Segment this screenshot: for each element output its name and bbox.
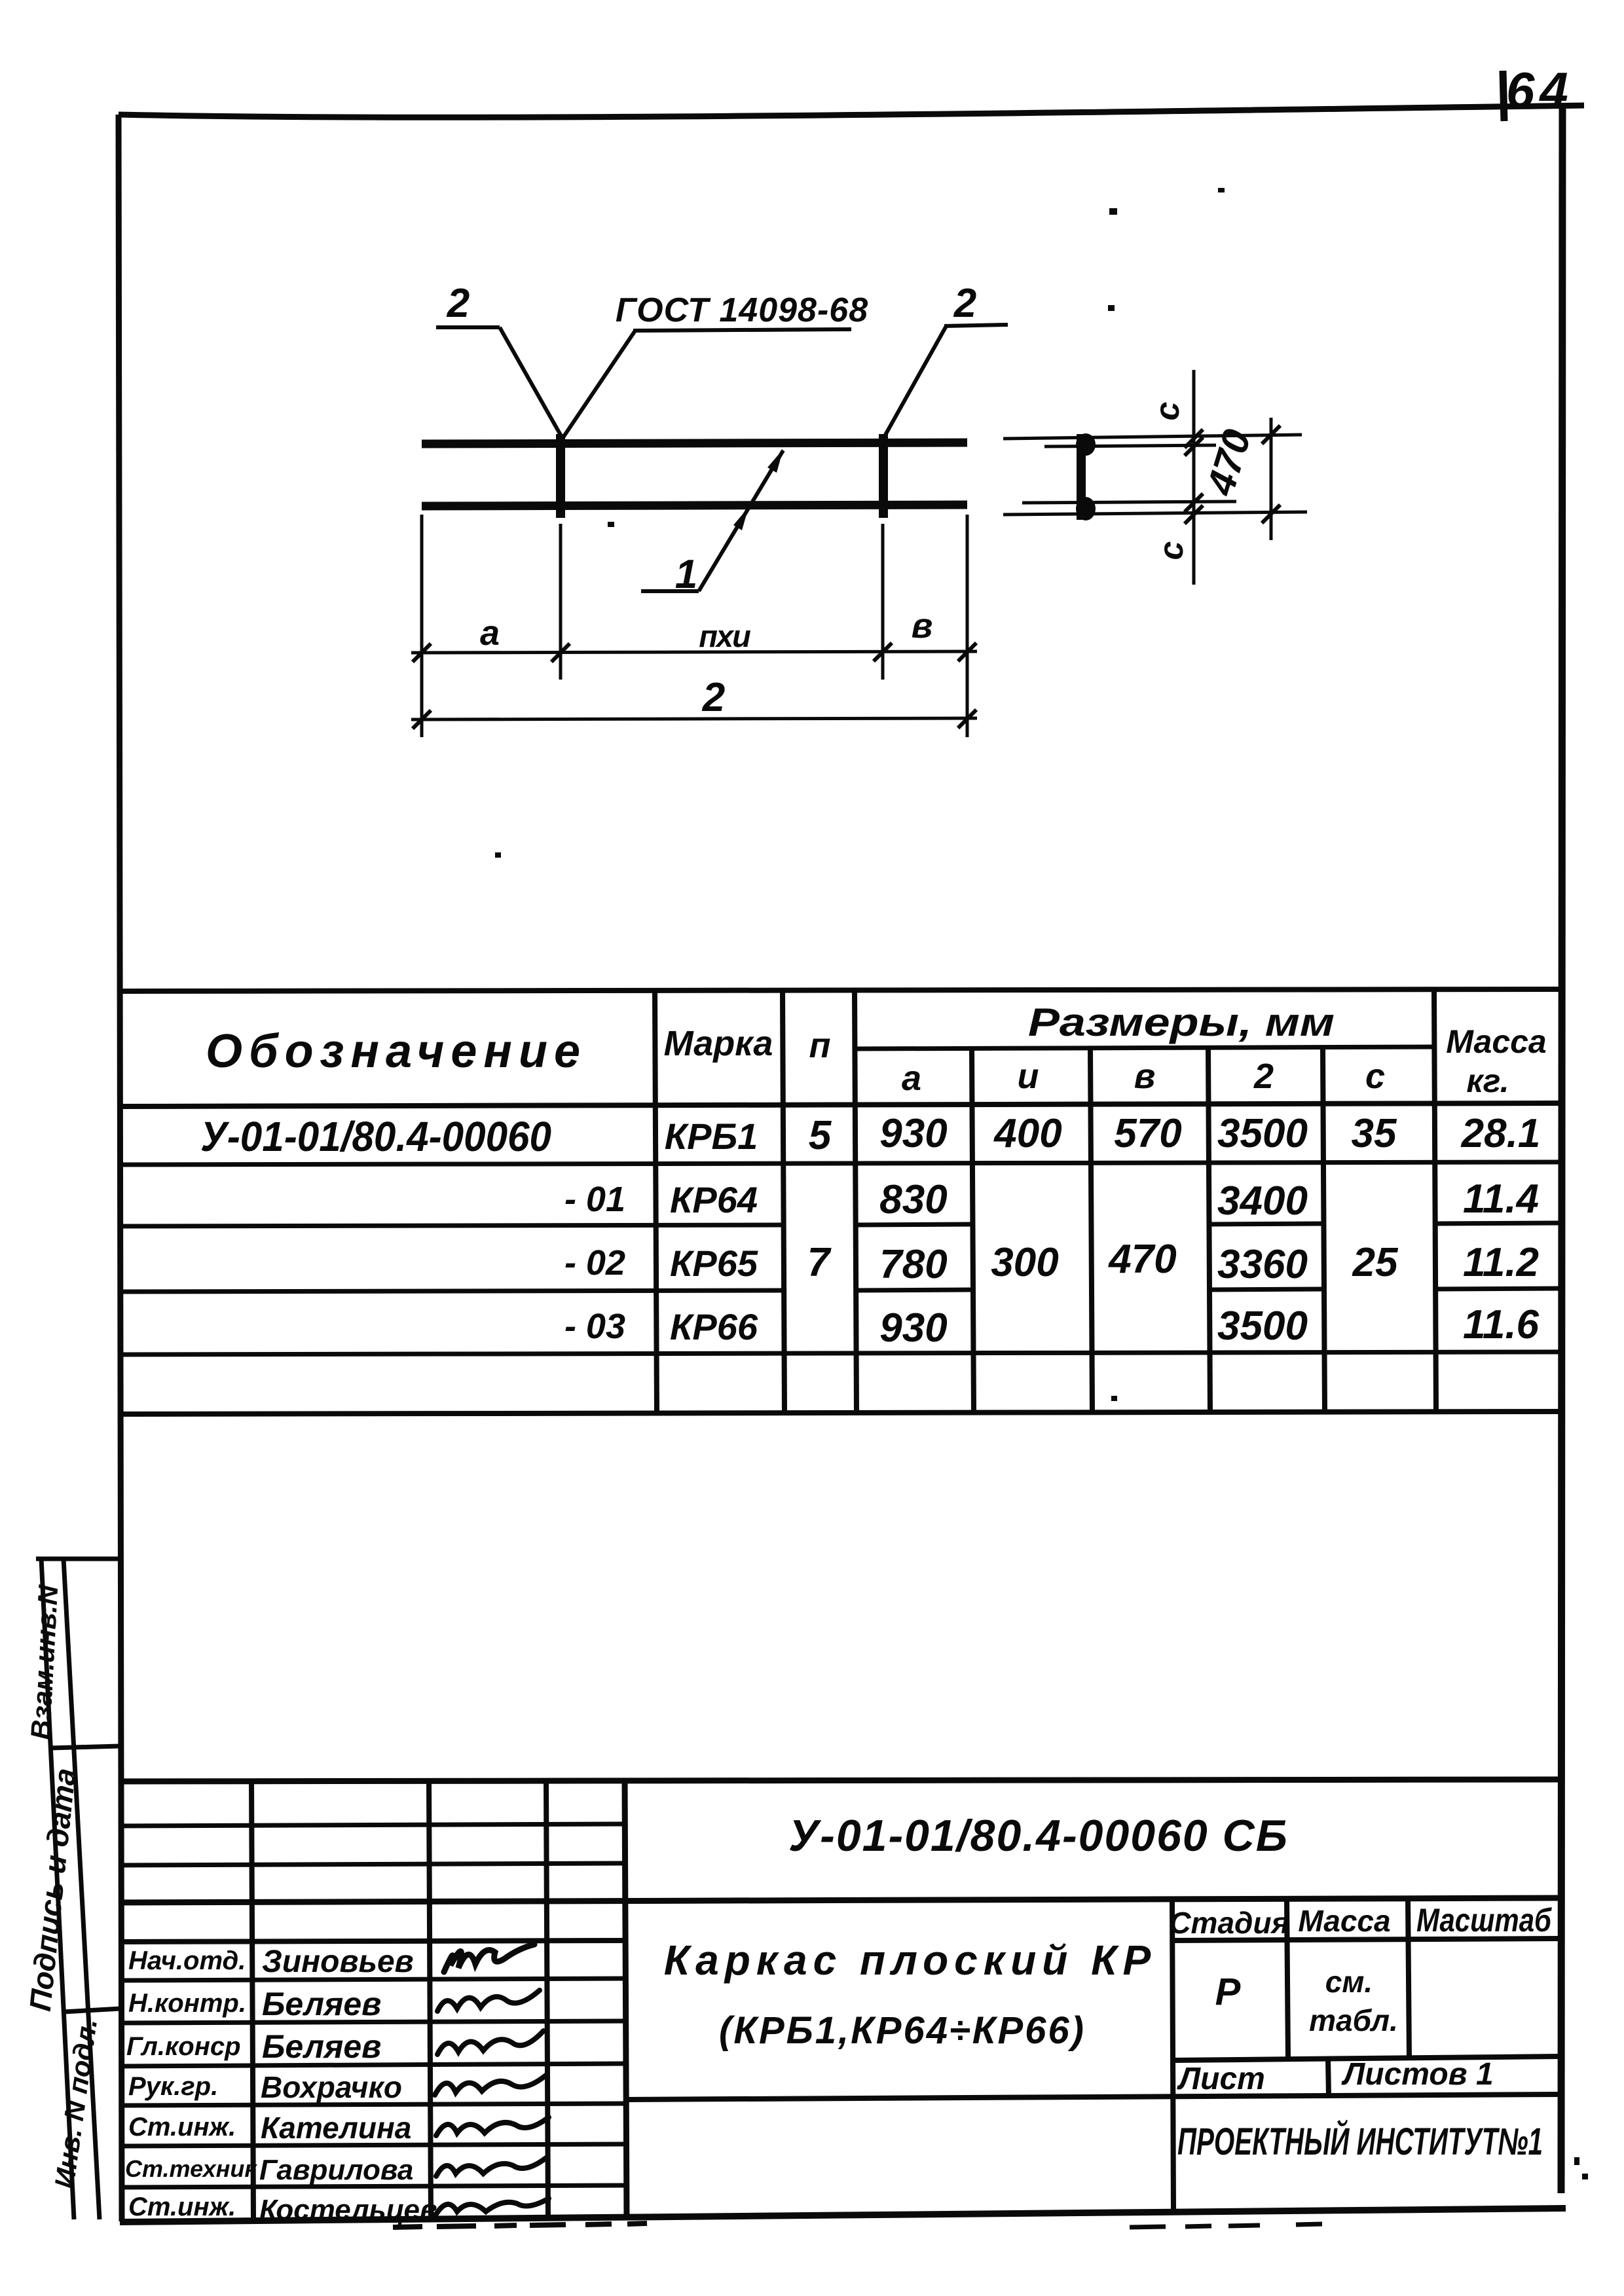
frame top border	[119, 105, 1584, 117]
signature row line e1	[120, 1824, 625, 1826]
extension line right cross	[881, 524, 885, 680]
leader 2 right line	[885, 326, 946, 436]
table top line	[119, 989, 1559, 991]
svg-text:Беляев: Беляев	[262, 2028, 381, 2065]
svg-text:п: п	[809, 1026, 831, 1065]
svg-text:11.6: 11.6	[1463, 1302, 1540, 1347]
svg-text:3360: 3360	[1217, 1242, 1308, 1287]
svg-text:а: а	[480, 613, 500, 653]
signature row line r5	[120, 2144, 625, 2146]
scan speck 4	[608, 522, 614, 527]
svg-text:Нач.отд.: Нач.отд.	[128, 1946, 246, 1975]
scan speck 6	[495, 852, 501, 858]
svg-text:Ст.инж.: Ст.инж.	[128, 2193, 236, 2221]
side bar end dot bottom	[1076, 497, 1096, 520]
dim1 tick 2	[551, 644, 570, 662]
table row line 3 segment left	[119, 1290, 783, 1292]
svg-text:Рук.гр.: Рук.гр.	[128, 2072, 218, 2101]
scan speck 8	[1582, 2174, 1588, 2179]
svg-text:Листов 1: Листов 1	[1341, 2057, 1493, 2092]
svg-text:Стадия: Стадия	[1169, 1906, 1289, 1940]
left margin divider low	[64, 2009, 120, 2012]
svg-text:300: 300	[991, 1240, 1058, 1285]
svg-text:Кателина: Кателина	[261, 2111, 411, 2145]
svg-text:и: и	[1018, 1057, 1039, 1096]
svg-text:Гл.конср: Гл.конср	[126, 2032, 241, 2061]
title block line stadia header bottom right	[1172, 1939, 1559, 1941]
svg-text:930: 930	[879, 1111, 947, 1156]
svg-text:пхи: пхи	[699, 619, 750, 653]
dimension line 2	[411, 718, 977, 720]
left margin outer line	[41, 1559, 74, 2219]
svg-text:930: 930	[879, 1305, 947, 1351]
svg-text:с: с	[1149, 401, 1187, 420]
svg-text:У-01-01/80.4-00060 СБ: У-01-01/80.4-00060 СБ	[788, 1811, 1289, 1861]
signature row line r1	[120, 1978, 625, 1980]
dim1 tick 1	[413, 644, 431, 662]
table row line 3 segment massa	[1434, 1288, 1559, 1289]
svg-text:2: 2	[702, 675, 725, 720]
svg-text:см.: см.	[1325, 1965, 1373, 1999]
svg-text:2: 2	[953, 281, 976, 326]
svg-text:3500: 3500	[1217, 1111, 1308, 1156]
scan speck 5	[1111, 1396, 1117, 1401]
svg-text:Размеры, мм: Размеры, мм	[1028, 1000, 1335, 1044]
svg-text:64: 64	[1506, 62, 1574, 119]
dashes under bottom border left group	[393, 2223, 647, 2227]
dashes under bottom border right group	[1130, 2224, 1322, 2227]
extension line right end	[966, 515, 969, 737]
svg-text:табл.: табл.	[1309, 2003, 1398, 2037]
svg-text:Лист: Лист	[1177, 2062, 1265, 2096]
svg-text:28.1: 28.1	[1461, 1111, 1541, 1156]
signature row line r6	[120, 2185, 625, 2187]
side top line long	[1003, 435, 1302, 439]
svg-text:с: с	[1365, 1057, 1385, 1096]
table row line 4	[119, 1352, 1559, 1355]
svg-text:Масса: Масса	[1446, 1023, 1547, 1060]
title block line doc/title	[119, 1898, 1559, 1903]
svg-text:Костельцев: Костельцев	[259, 2194, 437, 2226]
leader 1 arrowhead bottom	[733, 507, 748, 530]
leader 2 left line	[500, 327, 561, 436]
svg-text:7: 7	[807, 1240, 832, 1285]
table row line 2 segment massa	[1434, 1223, 1559, 1224]
frame bottom border	[120, 2208, 1566, 2222]
svg-text:780: 780	[879, 1242, 947, 1287]
signature squiggle 6	[436, 2158, 546, 2176]
frame right border	[1561, 107, 1562, 2193]
table vline u	[972, 1048, 974, 1413]
table vline massa	[1434, 991, 1436, 1413]
table vline c	[1323, 1048, 1325, 1413]
svg-text:КР64: КР64	[670, 1179, 758, 1220]
svg-text:КРБ1: КРБ1	[665, 1116, 758, 1157]
signature vline pos	[251, 1781, 253, 2221]
table vline marka	[655, 991, 657, 1413]
svg-text:в: в	[912, 606, 933, 646]
svg-text:ПРОЕКТНЫЙ ИНСТИТУТ№1: ПРОЕКТНЫЙ ИНСТИТУТ№1	[1177, 2120, 1543, 2163]
svg-text:Каркас плоский КР: Каркас плоский КР	[664, 1937, 1156, 1984]
side cross bar	[1077, 434, 1086, 520]
table header sub-line (under Razmery)	[855, 1047, 1434, 1049]
side top line short	[1044, 445, 1216, 446]
longitudinal bar top	[422, 443, 967, 444]
svg-text:5: 5	[809, 1113, 832, 1158]
side dim line 470	[1270, 418, 1273, 540]
title block vline massa	[1287, 1899, 1288, 2059]
svg-text:3500: 3500	[1217, 1303, 1308, 1349]
left margin divider mid	[50, 1746, 120, 1748]
leader 1 underline	[641, 589, 699, 593]
dimension line 1	[411, 651, 977, 653]
table bottom line	[119, 1412, 1559, 1414]
side dim c tick 1	[1185, 429, 1203, 448]
svg-text:11.4: 11.4	[1463, 1176, 1539, 1222]
title block line stadia header bottom left	[119, 1941, 626, 1942]
side dim c tick 4	[1185, 505, 1203, 524]
table vline v	[1090, 1048, 1092, 1413]
signature squiggle 5	[436, 2117, 549, 2136]
svg-text:кг.: кг.	[1466, 1063, 1509, 1099]
svg-text:2: 2	[1253, 1057, 1274, 1096]
signature squiggle 2	[437, 1990, 540, 2011]
svg-text:570: 570	[1114, 1111, 1181, 1156]
table row line 2 segment l	[1208, 1224, 1323, 1224]
title block line list row top	[1172, 2056, 1559, 2060]
side bar end dot top	[1076, 433, 1096, 456]
table row line 1	[119, 1162, 1559, 1165]
side dim c tick 2	[1185, 437, 1203, 456]
side dim 470 tick bottom	[1262, 505, 1280, 523]
svg-text:Н.контр.: Н.контр.	[128, 1989, 246, 2018]
svg-text:- 01: - 01	[564, 1180, 625, 1219]
side dim c tick 3	[1185, 494, 1203, 512]
signature squiggle 4	[435, 2074, 547, 2095]
table vline n	[783, 991, 784, 1413]
svg-text:КР66: КР66	[670, 1306, 758, 1347]
leader 2 right underline	[944, 325, 1008, 326]
svg-text:ГОСТ 14098-68: ГОСТ 14098-68	[616, 291, 868, 329]
title block vline masshtab	[1408, 1899, 1409, 2058]
svg-text:830: 830	[879, 1177, 947, 1222]
table row line 2 segment a	[855, 1224, 972, 1225]
svg-text:Беляев: Беляев	[262, 1986, 381, 2022]
signature row line r4	[120, 2104, 625, 2105]
svg-text:- 02: - 02	[564, 1243, 625, 1283]
table header bottom line	[119, 1103, 1559, 1106]
leader 1 line	[699, 450, 783, 591]
signature squiggle 3	[437, 2031, 544, 2054]
signature vline name	[429, 1781, 431, 2221]
svg-text:3400: 3400	[1217, 1178, 1308, 1224]
leader GOST underline	[633, 329, 851, 331]
scan speck 3	[1108, 305, 1115, 311]
left margin divider top	[36, 1557, 119, 1561]
scan speck 7	[1574, 2157, 1579, 2165]
cross bar right	[879, 434, 888, 518]
svg-text:2: 2	[447, 281, 470, 326]
side dim 470 tick top	[1262, 426, 1280, 444]
table vline a	[855, 991, 857, 1413]
svg-text:400: 400	[993, 1111, 1061, 1156]
scan speck 1	[1218, 188, 1225, 192]
svg-text:1: 1	[675, 552, 697, 597]
svg-text:У-01-01/80.4-00060: У-01-01/80.4-00060	[200, 1113, 551, 1160]
svg-text:Обозначение: Обозначение	[206, 1025, 580, 1078]
signature squiggle 7	[436, 2198, 549, 2214]
dim1 tick 3	[874, 643, 892, 661]
svg-text:470: 470	[1107, 1237, 1176, 1282]
svg-text:а: а	[902, 1059, 921, 1098]
title block vline listov	[1328, 2058, 1329, 2096]
signature squiggle 1	[444, 1944, 534, 1972]
side dim line c	[1192, 370, 1196, 585]
table row line 3 segment a	[855, 1290, 972, 1290]
table row line 3 segment l	[1208, 1289, 1323, 1290]
leader GOST line	[563, 331, 635, 437]
svg-text:(КРБ1,КР64÷КР66): (КРБ1,КР64÷КР66)	[719, 2009, 1086, 2052]
table row line 2 segment left	[119, 1225, 783, 1226]
side bottom line long	[1003, 512, 1307, 515]
leader 2 left underline	[436, 325, 500, 329]
svg-text:КР65: КР65	[670, 1243, 758, 1284]
svg-text:Масштаб: Масштаб	[1416, 1902, 1553, 1939]
cross bar left	[556, 434, 565, 518]
extension line left cross	[559, 524, 563, 680]
svg-text:Вохрачко: Вохрачко	[261, 2070, 402, 2104]
svg-text:Р: Р	[1215, 1971, 1241, 2013]
signature vline sig	[546, 1781, 548, 2220]
title block vline stadia	[1172, 1900, 1173, 2209]
title cell bottom + list row bottom line	[625, 2094, 1559, 2100]
svg-text:Марка: Марка	[664, 1024, 773, 1063]
dim1 tick 4	[958, 643, 976, 661]
title block top line	[119, 1779, 1559, 1781]
svg-text:Ст.инж.: Ст.инж.	[128, 2113, 236, 2141]
svg-text:Зиновьев: Зиновьев	[262, 1944, 414, 1979]
svg-text:Масса: Масса	[1298, 1904, 1390, 1938]
svg-text:35: 35	[1352, 1111, 1397, 1156]
table vline l	[1208, 1048, 1210, 1413]
page number stroke	[1503, 71, 1504, 121]
extension line left end	[420, 515, 424, 737]
dim2 tick 2	[958, 710, 976, 728]
signature row line e2	[120, 1863, 625, 1865]
svg-text:Гаврилова: Гаврилова	[259, 2154, 413, 2186]
signature row line r2	[120, 2021, 625, 2023]
leader 1 arrowhead top	[767, 449, 783, 473]
svg-text:11.2: 11.2	[1463, 1240, 1539, 1285]
scan speck 2	[1109, 208, 1117, 215]
svg-text:с: с	[1153, 541, 1190, 560]
left margin inner line	[64, 1559, 100, 2219]
side bottom line short	[1022, 501, 1236, 503]
svg-text:Ст.техник: Ст.техник	[125, 2155, 257, 2182]
signature row line r3	[120, 2064, 625, 2066]
frame left border	[119, 115, 122, 2221]
svg-text:- 03: - 03	[564, 1307, 625, 1346]
title block vline main	[625, 1781, 627, 2219]
svg-text:в: в	[1134, 1057, 1156, 1096]
svg-text:25: 25	[1352, 1240, 1399, 1285]
dim2 tick 1	[413, 710, 431, 729]
longitudinal bar bottom	[422, 505, 967, 506]
